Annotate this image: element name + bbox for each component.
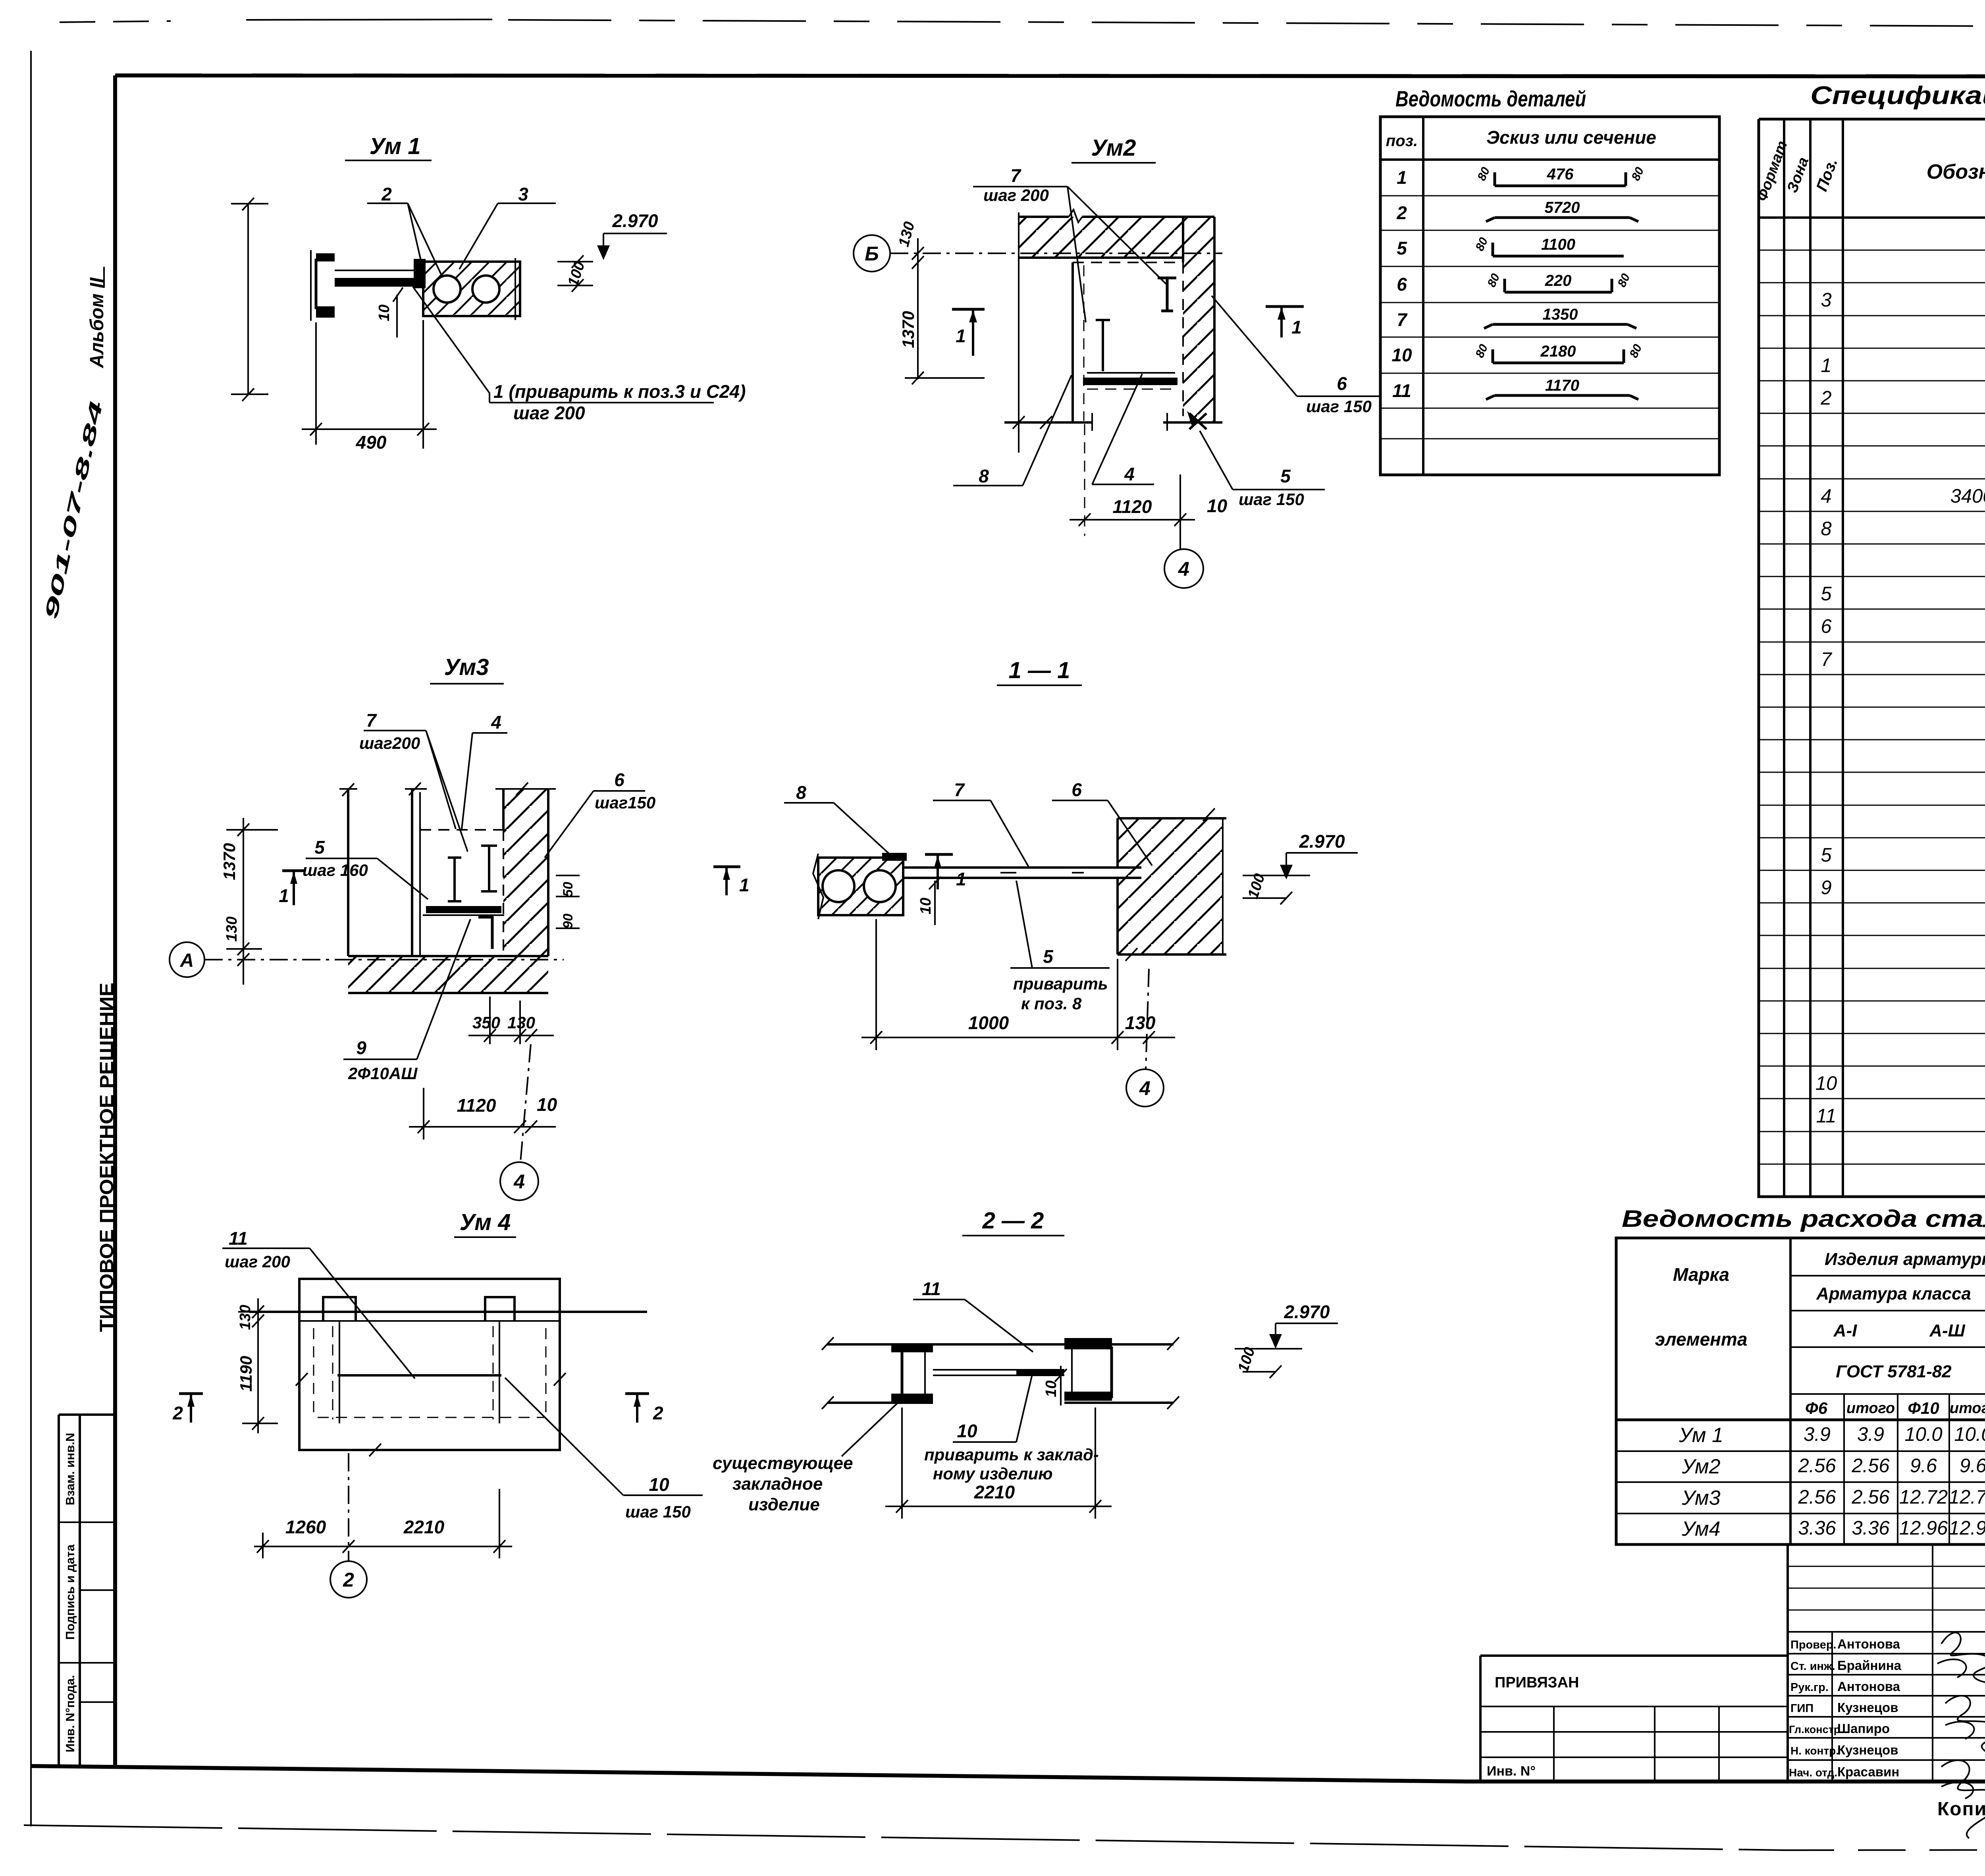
svg-text:1370: 1370 bbox=[220, 843, 239, 880]
svg-text:Ум3: Ум3 bbox=[1681, 1487, 1720, 1510]
Um2 inner G mark pos7 bbox=[1158, 278, 1176, 311]
svg-text:3.36: 3.36 bbox=[1852, 1517, 1890, 1539]
svg-text:итого: итого bbox=[1950, 1400, 1985, 1417]
svg-text:50: 50 bbox=[561, 882, 576, 897]
sketch row 4 bbox=[1505, 279, 1612, 292]
svg-text:90: 90 bbox=[561, 914, 576, 929]
svg-text:6: 6 bbox=[1072, 779, 1082, 800]
svg-text:6: 6 bbox=[1397, 274, 1407, 295]
svg-text:2.56: 2.56 bbox=[1798, 1455, 1836, 1477]
svg-text:2.56: 2.56 bbox=[1851, 1455, 1890, 1477]
svg-text:1: 1 bbox=[1821, 355, 1831, 376]
2-2 left channel bbox=[902, 1350, 933, 1397]
svg-text:10: 10 bbox=[1207, 496, 1228, 516]
svg-text:Изделия арматурные: Изделия арматурные bbox=[1825, 1249, 1985, 1269]
svg-text:10.0: 10.0 bbox=[1904, 1424, 1942, 1445]
Um1 steel plate dark bar bbox=[335, 278, 423, 287]
2-2 top line bbox=[827, 1343, 1174, 1346]
signatures scribbles bbox=[1941, 1633, 1985, 1689]
Um2 dim 1370 bbox=[899, 311, 917, 348]
svg-text:130: 130 bbox=[224, 916, 240, 941]
svg-text:3.9: 3.9 bbox=[1857, 1424, 1884, 1445]
svg-text:2.970: 2.970 bbox=[1299, 831, 1345, 852]
svg-text:10: 10 bbox=[376, 305, 393, 321]
svg-text:Антонова: Антонова bbox=[1837, 1637, 1900, 1651]
svg-text:2.970: 2.970 bbox=[612, 210, 658, 231]
svg-text:11: 11 bbox=[1392, 380, 1411, 401]
svg-text:1 — 1: 1 — 1 bbox=[1009, 657, 1070, 683]
2-2 middle plate bbox=[933, 1370, 1064, 1375]
svg-text:2 — 2: 2 — 2 bbox=[982, 1208, 1044, 1234]
svg-text:Нач. отд.: Нач. отд. bbox=[1789, 1766, 1837, 1779]
svg-text:итого: итого bbox=[1846, 1400, 1895, 1417]
svg-text:2: 2 bbox=[343, 1569, 354, 1591]
sketch row 2 bbox=[1486, 218, 1638, 222]
steel table horizontals bbox=[1790, 1276, 1985, 1394]
Um2 bottom edges bbox=[1004, 421, 1222, 424]
svg-text:Красавин: Красавин bbox=[1837, 1764, 1899, 1779]
svg-text:1 (приварить к поз.3 и С24): 1 (приварить к поз.3 и С24) bbox=[493, 381, 746, 402]
left margin: 901-07-8.84 bbox=[40, 399, 106, 621]
svg-text:шаг 150: шаг 150 bbox=[625, 1502, 691, 1521]
svg-text:220: 220 bbox=[1545, 272, 1572, 289]
svg-text:12.72: 12.72 bbox=[1949, 1487, 1985, 1508]
Um4 section mark 2 right bbox=[625, 1392, 649, 1395]
svg-text:А-I: А-I bbox=[1833, 1321, 1857, 1340]
sketch row 7 bbox=[1486, 395, 1638, 399]
svg-text:6: 6 bbox=[1821, 616, 1832, 637]
svg-text:Ведомость расхода стали на эле: Ведомость расхода стали на элемент, кг bbox=[1622, 1205, 1985, 1232]
title block top line bbox=[1788, 1543, 1985, 1546]
Um4 wall line across bbox=[249, 1311, 647, 1313]
svg-text:8: 8 bbox=[1821, 518, 1831, 540]
Um4 axis circle 2 bbox=[348, 1453, 349, 1560]
svg-text:8: 8 bbox=[979, 466, 989, 486]
1-1 right wall hatched bbox=[1118, 818, 1223, 954]
svg-text:476: 476 bbox=[1547, 166, 1574, 183]
svg-text:5720: 5720 bbox=[1545, 199, 1580, 216]
svg-text:3400-6/76: 3400-6/76 bbox=[1950, 486, 1985, 507]
svg-text:ГОСТ 5781-82: ГОСТ 5781-82 bbox=[1836, 1362, 1952, 1381]
svg-text:шаг 150: шаг 150 bbox=[1306, 397, 1372, 416]
1-1 section mark 1 left bbox=[925, 853, 953, 856]
frame border bbox=[115, 75, 1985, 77]
Um3 inner I marks bbox=[448, 858, 461, 901]
Um2 wall right band hatched bbox=[1183, 258, 1214, 422]
svg-text:шаг 150: шаг 150 bbox=[1239, 490, 1304, 509]
svg-text:Кузнецов: Кузнецов bbox=[1837, 1743, 1898, 1757]
Um4 dims 130 1190 bbox=[237, 1305, 254, 1330]
specification row lines bbox=[1759, 250, 1985, 1164]
Um4 break marks bbox=[296, 1373, 566, 1456]
specification header texts bbox=[1754, 139, 1791, 203]
svg-text:закладное: закладное bbox=[732, 1474, 823, 1494]
Um3 dims 50 90 right bbox=[561, 882, 576, 897]
svg-text:2210: 2210 bbox=[403, 1517, 445, 1537]
svg-text:ному изделию: ному изделию bbox=[933, 1464, 1053, 1483]
svg-text:6: 6 bbox=[1337, 373, 1347, 394]
svg-text:1: 1 bbox=[279, 885, 289, 906]
sheet top edge bbox=[60, 21, 171, 22]
Um2 section mark 1 right bbox=[1266, 305, 1304, 308]
svg-text:Марка: Марка bbox=[1673, 1264, 1729, 1285]
Um2 dim 130 bbox=[896, 220, 918, 249]
Um3 section mark 1 right bbox=[713, 866, 740, 868]
sheet left edge bbox=[30, 51, 32, 1826]
svg-text:8: 8 bbox=[796, 782, 806, 803]
svg-text:Ф10: Ф10 bbox=[1908, 1399, 1939, 1417]
svg-text:4: 4 bbox=[513, 1170, 525, 1193]
svg-text:4: 4 bbox=[1124, 464, 1135, 484]
svg-text:Н. контр.: Н. контр. bbox=[1790, 1745, 1839, 1757]
svg-text:1120: 1120 bbox=[457, 1095, 496, 1116]
1-1 dim 10 bbox=[917, 898, 934, 914]
svg-text:6: 6 bbox=[614, 769, 624, 790]
Um3 right wall hatched bbox=[503, 789, 548, 956]
steel table outer border bbox=[1616, 1238, 1985, 1544]
svg-text:1: 1 bbox=[1291, 317, 1302, 337]
svg-text:Взам. инв.N: Взам. инв.N bbox=[63, 1433, 77, 1506]
svg-text:Ум2: Ум2 bbox=[1091, 135, 1136, 161]
Um3 bottom slab hatched bbox=[348, 956, 548, 993]
svg-text:3.9: 3.9 bbox=[1804, 1424, 1831, 1445]
svg-text:130: 130 bbox=[237, 1305, 254, 1330]
2-2 dim 10 bbox=[1043, 1380, 1060, 1397]
svg-text:3.36: 3.36 bbox=[1798, 1517, 1836, 1539]
Um4 inner verticals bbox=[339, 1321, 499, 1423]
svg-text:Ум 1: Ум 1 bbox=[369, 133, 420, 159]
2-2 bottom line bbox=[827, 1402, 1174, 1404]
svg-text:1: 1 bbox=[956, 326, 966, 346]
svg-text:350: 350 bbox=[472, 1013, 500, 1032]
svg-text:12.96: 12.96 bbox=[1899, 1517, 1948, 1539]
svg-text:7: 7 bbox=[954, 779, 965, 800]
svg-text:Обозначение: Обозначение bbox=[1927, 160, 1985, 183]
svg-text:существующее: существующее bbox=[713, 1454, 853, 1473]
svg-text:4: 4 bbox=[491, 712, 501, 733]
svg-text:Ум 4: Ум 4 bbox=[459, 1209, 511, 1235]
svg-text:11: 11 bbox=[922, 1278, 941, 1299]
svg-text:2: 2 bbox=[1396, 202, 1407, 223]
Um2 inner T mark pos4 bbox=[1096, 320, 1110, 371]
svg-text:2.56: 2.56 bbox=[1851, 1487, 1890, 1508]
1-1 hollow core slab bbox=[818, 858, 903, 915]
svg-text:шаг 200: шаг 200 bbox=[983, 186, 1049, 204]
svg-text:1000: 1000 bbox=[968, 1012, 1009, 1033]
Um3 axis A bbox=[170, 942, 204, 977]
svg-text:9: 9 bbox=[1821, 877, 1831, 898]
svg-text:А: А bbox=[180, 950, 194, 971]
svg-text:Б: Б bbox=[865, 243, 879, 265]
svg-text:2: 2 bbox=[381, 184, 392, 204]
svg-text:поз.: поз. bbox=[1386, 132, 1418, 150]
sketch row 5 bbox=[1484, 324, 1636, 328]
svg-text:1100: 1100 bbox=[1541, 236, 1575, 253]
left margin: album text bbox=[87, 277, 108, 368]
svg-text:шаг 200: шаг 200 bbox=[225, 1252, 290, 1271]
Um4 section mark 2 left bbox=[179, 1392, 203, 1395]
svg-text:Рук.гр.: Рук.гр. bbox=[1790, 1681, 1829, 1694]
Um2 section mark 1 left bbox=[952, 308, 985, 311]
Um2 dim 1120 10 bbox=[1084, 424, 1085, 536]
Um1 angle at slab bbox=[414, 259, 426, 288]
svg-text:1370: 1370 bbox=[899, 311, 917, 348]
Um2 weld arrow bbox=[1189, 413, 1206, 429]
Um2 wall top band hatched bbox=[1019, 217, 1214, 258]
svg-text:1190: 1190 bbox=[237, 1356, 255, 1392]
svg-text:4: 4 bbox=[1178, 558, 1189, 580]
Um4 hooks bbox=[323, 1297, 356, 1321]
Um3 left wall panel bbox=[348, 789, 412, 956]
svg-text:Альбом II: Альбом II bbox=[87, 277, 108, 368]
Um3 section mark 1 left bbox=[282, 870, 306, 872]
svg-text:130: 130 bbox=[507, 1013, 535, 1032]
svg-text:2180: 2180 bbox=[1540, 343, 1576, 360]
svg-text:Ст. инж.: Ст. инж. bbox=[1790, 1660, 1835, 1673]
svg-text:10.0: 10.0 bbox=[1954, 1424, 1985, 1445]
1-1 embedded part dark bbox=[882, 853, 907, 861]
Um1 leader pos1 bbox=[413, 287, 714, 403]
svg-text:1: 1 bbox=[739, 875, 750, 895]
svg-text:шаг200: шаг200 bbox=[359, 734, 420, 752]
svg-text:5: 5 bbox=[1821, 583, 1832, 605]
signature table verticals bbox=[1788, 1543, 1985, 1782]
svg-text:1120: 1120 bbox=[1113, 496, 1152, 517]
Um3 axis circle 4 bbox=[520, 1044, 531, 1162]
parts list borders bbox=[1380, 117, 1719, 475]
svg-text:5: 5 bbox=[1821, 844, 1832, 866]
svg-text:9: 9 bbox=[356, 1037, 366, 1058]
Um3 dims 1370 130 bbox=[220, 843, 239, 880]
Um4 mid horizontal bbox=[337, 1374, 501, 1377]
svg-text:2: 2 bbox=[172, 1403, 183, 1423]
Um1 dim 100 right bbox=[557, 255, 593, 292]
svg-text:А-Ш: А-Ш bbox=[1929, 1321, 1965, 1340]
svg-text:Антонова: Антонова bbox=[1837, 1679, 1900, 1694]
svg-text:Брайнина: Брайнина bbox=[1837, 1658, 1902, 1673]
1-1 axis circle 4 bbox=[1146, 969, 1149, 1069]
2-2 right channel bbox=[1064, 1348, 1112, 1397]
svg-text:ТИПОВОЕ ПРОЕКТНОЕ РЕШЕНИЕ: ТИПОВОЕ ПРОЕКТНОЕ РЕШЕНИЕ bbox=[96, 983, 118, 1332]
1-1 dim 1000 130 bbox=[861, 919, 1175, 1050]
svg-text:9.6: 9.6 bbox=[1960, 1455, 1985, 1477]
svg-text:Подпись и дата: Подпись и дата bbox=[63, 1544, 77, 1640]
svg-text:Гл.констр: Гл.констр bbox=[1789, 1724, 1840, 1735]
svg-text:130: 130 bbox=[1125, 1012, 1156, 1033]
svg-text:приварить к заклад-: приварить к заклад- bbox=[924, 1445, 1099, 1464]
svg-text:1260: 1260 bbox=[285, 1517, 326, 1537]
svg-text:12.96: 12.96 bbox=[1949, 1517, 1985, 1539]
Um1 channel profile bbox=[316, 260, 335, 308]
svg-text:4: 4 bbox=[1139, 1077, 1151, 1099]
svg-text:Ум3: Ум3 bbox=[444, 654, 489, 680]
Um3 monolith bbox=[420, 829, 503, 831]
svg-text:4: 4 bbox=[1821, 486, 1831, 507]
svg-text:Инв. N°: Инв. N° bbox=[1487, 1764, 1536, 1779]
svg-text:7: 7 bbox=[366, 710, 377, 731]
svg-text:Ум2: Ум2 bbox=[1681, 1455, 1720, 1478]
svg-text:элемента: элемента bbox=[1655, 1329, 1748, 1350]
sheet bottom edge bbox=[24, 1825, 1786, 1850]
Um2 bottom plate and dark bar bbox=[1087, 372, 1175, 374]
svg-text:Копировал: Копировал bbox=[1937, 1799, 1985, 1820]
svg-text:Провер.: Провер. bbox=[1790, 1639, 1837, 1651]
svg-text:2210: 2210 bbox=[974, 1482, 1015, 1502]
svg-text:2: 2 bbox=[1820, 388, 1831, 409]
left margin: Типовое проектное решение bbox=[96, 983, 118, 1332]
svg-text:Шапиро: Шапиро bbox=[1837, 1721, 1890, 1736]
privyazan box bbox=[1480, 1656, 1788, 1782]
sketch row 3 bbox=[1493, 243, 1624, 256]
svg-text:изделие: изделие bbox=[748, 1495, 820, 1514]
svg-text:11: 11 bbox=[1816, 1105, 1837, 1127]
svg-text:Ум 1: Ум 1 bbox=[1679, 1424, 1723, 1447]
svg-text:10: 10 bbox=[649, 1474, 669, 1495]
Um2 extension left wall line bbox=[1013, 212, 1025, 453]
Um4 outer rectangle bbox=[299, 1279, 560, 1450]
Um1 hollow core slab bbox=[423, 262, 520, 316]
Um1 top plate line bbox=[335, 270, 423, 271]
svg-text:7: 7 bbox=[1821, 649, 1832, 670]
svg-text:1350: 1350 bbox=[1543, 306, 1578, 323]
svg-text:12.72: 12.72 bbox=[1899, 1487, 1948, 1508]
sketch row 1 bbox=[1495, 172, 1626, 186]
svg-text:3: 3 bbox=[1821, 289, 1831, 311]
svg-text:ГИП: ГИП bbox=[1790, 1702, 1813, 1715]
svg-text:ПРИВЯЗАН: ПРИВЯЗАН bbox=[1495, 1674, 1579, 1691]
svg-text:Спецификация монолитных учас: Спецификация монолитных участков bbox=[1810, 81, 1985, 110]
svg-text:шаг 160: шаг 160 bbox=[303, 861, 368, 879]
svg-text:5: 5 bbox=[1280, 466, 1291, 486]
svg-text:2.56: 2.56 bbox=[1798, 1487, 1836, 1508]
svg-text:Ведомость деталей: Ведомость деталей bbox=[1395, 86, 1586, 111]
svg-text:Эскиз или сечение: Эскиз или сечение bbox=[1486, 127, 1656, 148]
svg-text:2Ф10АШ: 2Ф10АШ bbox=[348, 1064, 418, 1083]
svg-text:10: 10 bbox=[917, 898, 934, 914]
Um1 dim 10 bbox=[376, 305, 393, 321]
svg-text:приварить: приварить bbox=[1013, 974, 1108, 993]
svg-text:1170: 1170 bbox=[1545, 377, 1579, 394]
svg-text:Арматура класса: Арматура класса bbox=[1816, 1284, 1971, 1303]
svg-text:10: 10 bbox=[1815, 1073, 1837, 1094]
svg-text:к поз. 8: к поз. 8 bbox=[1021, 994, 1082, 1013]
left margin bottom table bbox=[59, 1415, 115, 1766]
steel table verticals bbox=[1790, 1238, 1985, 1544]
svg-text:шаг 200: шаг 200 bbox=[513, 403, 585, 423]
svg-text:Кузнецов: Кузнецов bbox=[1837, 1700, 1898, 1715]
svg-text:7: 7 bbox=[1397, 309, 1408, 330]
Um3 small angle mark bbox=[478, 917, 492, 949]
sketch row 6 bbox=[1493, 349, 1624, 363]
svg-text:10: 10 bbox=[957, 1421, 977, 1441]
svg-text:5: 5 bbox=[314, 837, 325, 858]
Um3 bottom plate dark bar bbox=[426, 906, 501, 913]
Um1 left vertical dimension bbox=[231, 198, 268, 401]
signature table rows bbox=[1788, 1566, 1985, 1610]
svg-text:11: 11 bbox=[229, 1228, 248, 1249]
svg-text:7: 7 bbox=[1010, 165, 1021, 186]
Um4 dashed inner contour bbox=[314, 1328, 546, 1419]
svg-text:2.970: 2.970 bbox=[1284, 1301, 1330, 1322]
Um2 monolith outline bbox=[1073, 262, 1183, 263]
svg-text:Ум4: Ум4 bbox=[1681, 1517, 1720, 1541]
svg-text:2: 2 bbox=[653, 1403, 663, 1423]
svg-text:1: 1 bbox=[1397, 167, 1407, 188]
svg-text:5: 5 bbox=[1397, 238, 1407, 258]
svg-text:Ф6: Ф6 bbox=[1805, 1399, 1828, 1417]
svg-text:10: 10 bbox=[537, 1094, 557, 1115]
specification borders bbox=[1759, 119, 1985, 1197]
svg-text:10: 10 bbox=[1391, 345, 1412, 365]
Um1 dim 490 bbox=[302, 320, 437, 449]
svg-text:490: 490 bbox=[356, 432, 387, 453]
1-1 long plate bbox=[903, 868, 1141, 878]
Um2 axis B circle bbox=[854, 235, 890, 272]
svg-text:3: 3 bbox=[518, 184, 528, 204]
svg-text:шаг150: шаг150 bbox=[595, 793, 655, 812]
svg-text:Инв. N°пода.: Инв. N°пода. bbox=[63, 1675, 77, 1753]
Um2 axis circle 4 bbox=[1164, 549, 1203, 588]
svg-text:10: 10 bbox=[1043, 1380, 1060, 1397]
svg-text:5: 5 bbox=[1043, 946, 1054, 967]
svg-text:9.6: 9.6 bbox=[1910, 1455, 1937, 1477]
